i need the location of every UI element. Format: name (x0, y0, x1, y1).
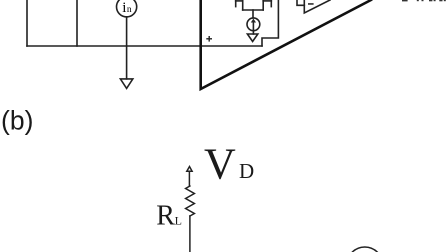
label - (inverting input of U2) (308, 3, 314, 4)
wire step from bus up into amplifier internals (262, 0, 278, 46)
tail current source I1 circle (247, 18, 260, 31)
ground arrow below tail source (247, 34, 257, 42)
transistor Q1 (left device, cut off at top) (235, 0, 237, 7)
svg-text:R: R (156, 200, 175, 231)
tail current source arrow (up) (252, 21, 254, 29)
wire jog into small op-amp inverting input (297, 0, 304, 5)
svg-text:V: V (204, 139, 236, 188)
wire resistor down to bottom (189, 216, 191, 252)
wire left vertical 1 (26, 0, 28, 46)
arrow up to VD supply node (187, 167, 192, 172)
label + (non-inverting input of U1) (206, 36, 212, 42)
wire from sources down to tail current source (252, 10, 254, 18)
cut-off text fragments top right (402, 0, 446, 1)
resistor RL zigzag (186, 186, 195, 216)
svg-text:D: D (239, 159, 254, 183)
wire horizontal bus (+ input net) (27, 45, 262, 47)
wire common source bar (243, 9, 264, 11)
ground arrow below in (120, 79, 132, 89)
wire left vertical 2 (76, 0, 78, 46)
transistor Q2 (right device, cut off at top) (262, 0, 264, 10)
svg-text:n: n (127, 5, 132, 15)
wire VD to resistor (188, 171, 190, 186)
wire from current source in down to ground arrow (126, 17, 128, 79)
op-amp U1 (large output stage triangle) (201, 0, 371, 89)
svg-text:i: i (122, 0, 126, 16)
op-amp U2 (small, cut off at top) (304, 0, 330, 13)
svg-text:L: L (175, 213, 182, 227)
source circle bottom right (cut off) (347, 247, 383, 252)
wire below tail source (252, 31, 254, 34)
current source in circle (117, 0, 137, 17)
svg-text:(b): (b) (1, 106, 33, 136)
